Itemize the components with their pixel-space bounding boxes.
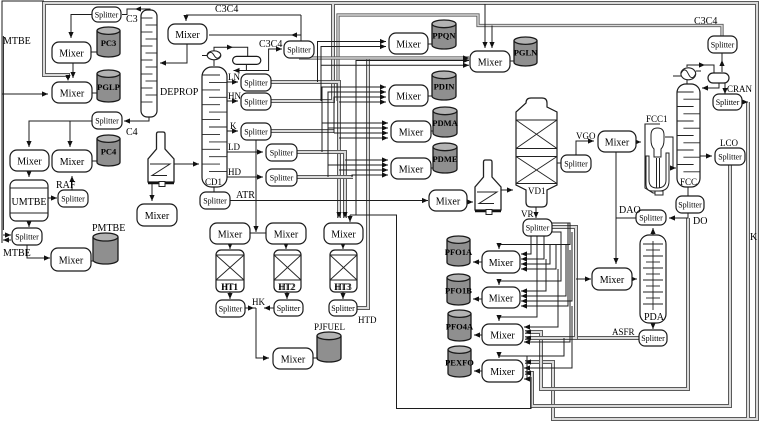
wire FCC condenser stub right xyxy=(696,70,701,72)
splitter S2 xyxy=(92,112,122,129)
wire mixer M12 feed 4 xyxy=(352,172,388,177)
drum PEXFO xyxy=(445,346,474,377)
wire reactor HT3 to splitter S16 xyxy=(340,292,345,299)
wire splitter S2 to mixer M3 xyxy=(26,121,92,147)
svg-text:Mixer: Mixer xyxy=(59,255,84,266)
splitter S12 xyxy=(639,330,667,346)
wire FCC column top to condenser xyxy=(686,80,688,84)
wire mixer M9 top feed 2 xyxy=(489,26,494,49)
svg-text:Splitter: Splitter xyxy=(287,46,311,55)
wire mixer M21 to drum PFO1B xyxy=(473,296,482,301)
mixer M21 xyxy=(482,287,520,308)
svg-text:Splitter: Splitter xyxy=(244,79,268,88)
mixer M4 xyxy=(52,150,92,172)
wire FCC condenser stub left xyxy=(673,75,681,77)
svg-text:PC4: PC4 xyxy=(101,147,117,157)
svg-text:HK: HK xyxy=(252,297,265,307)
wire mixer M10 feed 4 xyxy=(339,99,386,104)
wire FCC LCO draw to splitter S9 xyxy=(700,153,712,158)
wire mixer M13 to furnace F2 xyxy=(467,199,473,204)
splitter S8 xyxy=(713,94,742,110)
wire UMTBE to splitter S3 xyxy=(26,221,31,227)
column VD1 vacuum tower xyxy=(516,98,557,207)
wire left frame second line xyxy=(2,36,4,230)
svg-text:LN: LN xyxy=(228,72,240,82)
wire CD1 K draw xyxy=(227,128,238,133)
svg-text:C3C4: C3C4 xyxy=(694,16,717,27)
bus LCO line xyxy=(525,165,730,406)
reactor HT3 xyxy=(330,250,357,292)
svg-text:PDA: PDA xyxy=(644,312,665,323)
splitter S6 xyxy=(561,155,591,172)
bus LN splitter out xyxy=(271,82,342,218)
svg-text:HT1: HT1 xyxy=(221,282,238,292)
svg-text:PC3: PC3 xyxy=(101,38,117,48)
wire PFO1B top feed xyxy=(496,232,561,285)
mixer M9 xyxy=(470,51,510,72)
svg-text:C3: C3 xyxy=(126,14,138,25)
wire CD1 HD draw xyxy=(227,174,263,179)
svg-text:Mixer: Mixer xyxy=(59,48,84,59)
wire HT1 HT2 mixer junction xyxy=(250,232,266,234)
drum PC3 xyxy=(97,27,120,57)
wire C3C4 splitter S4 riser xyxy=(300,15,302,41)
wire PFO4A feed 1 xyxy=(524,269,558,330)
wire mixer M23 to drum PEXFO xyxy=(474,368,482,373)
svg-text:PDIN: PDIN xyxy=(434,82,456,92)
reflux drum D1 xyxy=(233,56,261,64)
wire mixer M9 top feed 1 xyxy=(482,4,487,48)
wire drum D2 up to splitter S7 xyxy=(719,53,724,72)
wire DAO line down to mixer M15 xyxy=(613,218,636,264)
wire mixer M15 to PDA column xyxy=(631,276,637,281)
svg-text:Mixer: Mixer xyxy=(399,127,424,138)
splitter S1 xyxy=(92,7,121,22)
wire PFO4A feed 4 xyxy=(524,250,570,345)
svg-text:Splitter: Splitter xyxy=(277,304,301,313)
reactor HT2 xyxy=(274,250,301,292)
mixer M10 xyxy=(389,85,428,106)
wire DEPROP bottoms C4 to splitter S2 xyxy=(124,117,149,124)
svg-text:Mixer: Mixer xyxy=(218,229,243,240)
wire mixer M12 feed 2 xyxy=(328,162,388,167)
svg-text:FCC: FCC xyxy=(680,177,697,187)
wire PEXFO top feed xyxy=(496,338,564,358)
bus K splitter out xyxy=(271,129,334,133)
mixer M2 xyxy=(52,82,92,103)
svg-text:Mixer: Mixer xyxy=(605,137,630,148)
svg-text:Mixer: Mixer xyxy=(145,211,170,222)
condenser E2 (FCC overhead) xyxy=(681,68,696,80)
svg-text:Splitter: Splitter xyxy=(15,233,39,242)
column DEPROP xyxy=(141,10,157,117)
wire mixer M14 to DAO junction xyxy=(615,152,617,218)
wire HK to mixer M19 xyxy=(256,308,269,361)
svg-text:PFO4A: PFO4A xyxy=(446,322,474,332)
svg-text:VR: VR xyxy=(521,209,534,219)
wire PEXFO feed 2 xyxy=(524,306,572,371)
svg-text:HT3: HT3 xyxy=(334,282,351,292)
wire CD1 LN draw xyxy=(227,79,238,84)
wire PDA bottoms to splitter S12 xyxy=(650,323,655,329)
svg-text:Mixer: Mixer xyxy=(478,57,503,68)
splitter SK xyxy=(241,123,271,140)
mixer M6 xyxy=(168,24,207,44)
svg-text:PFO1B: PFO1B xyxy=(445,286,472,296)
wire PFO1A feed 3 xyxy=(521,245,550,267)
splitter S7 xyxy=(708,36,737,53)
svg-text:C3C4: C3C4 xyxy=(215,4,238,15)
wire splitter S8 out right xyxy=(742,99,748,104)
wire mixer M20 to drum PFO1A xyxy=(473,259,482,264)
svg-text:Mixer: Mixer xyxy=(396,39,421,50)
wire mixer M11 feed 2 xyxy=(328,125,388,130)
splitter SRAF xyxy=(58,190,88,207)
wire splitter S6 to mixer M14 VGO xyxy=(576,138,594,155)
wire mixer M8 feed 2 xyxy=(321,44,386,101)
svg-text:Mixer: Mixer xyxy=(490,330,515,341)
column FCC main fractionator xyxy=(677,84,700,187)
svg-text:Mixer: Mixer xyxy=(17,156,42,167)
vessel UMTBE xyxy=(10,180,48,221)
wire mixer M11 feed 3 xyxy=(334,130,388,135)
splitter SHN xyxy=(241,93,271,110)
wire splitter S10 to splitter S11 xyxy=(669,213,688,221)
wire furnace F1 to CD1 feed xyxy=(174,161,199,166)
wire mixer M11 feed 1 xyxy=(322,120,388,125)
svg-text:HTD: HTD xyxy=(358,315,377,325)
wire mixer M12 feed 1 xyxy=(345,157,388,162)
splitter SLD xyxy=(266,144,297,161)
svg-text:HT2: HT2 xyxy=(278,282,295,292)
svg-text:Mixer: Mixer xyxy=(60,157,85,168)
wire reactor HT2 to splitter S15 xyxy=(284,292,289,299)
drum PDME xyxy=(432,143,457,173)
svg-text:Mixer: Mixer xyxy=(396,91,421,102)
wire C3C4 top line xyxy=(186,14,301,16)
wire PFO1B feed 3 xyxy=(521,232,572,304)
mixer M14 xyxy=(598,131,636,152)
wire splitter S3 left in xyxy=(3,232,11,237)
svg-text:UMTBE: UMTBE xyxy=(12,197,47,208)
svg-text:Splitter: Splitter xyxy=(270,149,294,158)
wire VD1 bottoms VR to splitter S13 xyxy=(533,207,538,218)
wire mixer M9 left feed 1b xyxy=(356,58,469,215)
condenser E1 (CD1 overhead) xyxy=(207,51,221,60)
svg-text:VGO: VGO xyxy=(576,131,596,141)
mixer M15 xyxy=(592,268,632,290)
svg-text:CD1: CD1 xyxy=(205,177,222,187)
wire mixer M16 to reactor HT1 xyxy=(227,243,232,249)
wire RAF splitter to mixer M4 xyxy=(69,176,74,190)
svg-text:Mixer: Mixer xyxy=(331,229,356,240)
wire mixer M22 to drum PFO4A xyxy=(474,332,482,337)
svg-text:ASFR: ASFR xyxy=(612,327,635,337)
splitter S16 xyxy=(329,300,357,316)
drum PPQN xyxy=(432,20,456,49)
furnace F2 xyxy=(475,160,501,215)
wire left frame MTBE xyxy=(2,1,44,243)
wire PFO1A feed 4 xyxy=(521,245,556,272)
svg-text:Splitter: Splitter xyxy=(331,304,355,313)
svg-text:Splitter: Splitter xyxy=(270,174,294,183)
mixer M7 xyxy=(137,204,177,226)
wire top line to mixer M6 xyxy=(183,15,188,21)
wire FCC1 to FCC column xyxy=(665,137,676,171)
mixer M22 xyxy=(482,324,523,345)
wire condenser E1 stub xyxy=(202,55,208,57)
svg-text:Splitter: Splitter xyxy=(244,128,268,137)
wire ATR line to mixer M13 xyxy=(230,198,428,203)
wire splitter S3 to mixer M5 xyxy=(27,245,50,261)
bus DO line xyxy=(525,218,688,389)
svg-text:C4: C4 xyxy=(126,127,138,138)
svg-text:MTBE: MTBE xyxy=(3,36,31,47)
wire mid collector line xyxy=(350,215,531,409)
mixer M11 xyxy=(391,121,431,142)
svg-text:Mixer: Mixer xyxy=(281,354,306,365)
mixer M20 xyxy=(482,251,520,273)
wire UMTBE to RAF splitter xyxy=(48,195,57,200)
svg-text:Splitter: Splitter xyxy=(526,224,550,233)
svg-text:PPQN: PPQN xyxy=(432,31,456,41)
mixer M23 xyxy=(482,360,523,382)
svg-text:K: K xyxy=(750,232,758,243)
furnace F1 xyxy=(148,132,174,187)
wire PDA top to splitter S11 xyxy=(650,228,655,235)
svg-text:DAO: DAO xyxy=(619,205,641,216)
mixer M16 xyxy=(210,223,250,244)
svg-text:Splitter: Splitter xyxy=(61,195,85,204)
mixer M5 xyxy=(51,248,91,271)
svg-text:C3C4: C3C4 xyxy=(259,39,282,50)
wire FCC condenser to drum D2 xyxy=(687,62,714,72)
wire mixer M10 feed 1 xyxy=(322,84,386,152)
reactor FCC1 riser-regenerator xyxy=(645,124,669,195)
wire splitter S14 HK out xyxy=(245,305,256,310)
svg-text:PDME: PDME xyxy=(432,154,457,164)
wire CD1 LD draw xyxy=(227,149,263,154)
svg-text:Splitter: Splitter xyxy=(641,334,665,343)
svg-text:HN: HN xyxy=(228,91,241,101)
wire splitter S2 to mixer M4 xyxy=(67,121,72,147)
drum PDMA xyxy=(432,107,458,137)
svg-text:K: K xyxy=(230,121,237,131)
wire PFO1B feed 4 xyxy=(521,223,568,309)
wire PEXFO feed 4 xyxy=(524,356,530,382)
column PDA xyxy=(640,235,666,323)
svg-text:Mixer: Mixer xyxy=(274,229,299,240)
drum PDIN xyxy=(432,71,456,100)
splitter S11 xyxy=(636,210,666,225)
wire mixer M10 feed 2 xyxy=(328,89,386,177)
svg-text:ATR: ATR xyxy=(236,190,255,201)
wire mixer M3 to UMTBE xyxy=(26,171,31,177)
svg-text:Mixer: Mixer xyxy=(600,275,625,286)
wire PFO1B feed 1 xyxy=(521,259,546,294)
drum PFO4A xyxy=(446,310,474,341)
svg-text:Splitter: Splitter xyxy=(95,117,119,126)
svg-text:Mixer: Mixer xyxy=(490,367,515,378)
svg-text:HD: HD xyxy=(228,167,241,177)
svg-text:Splitter: Splitter xyxy=(718,153,742,162)
wire mixer M11 feed 4 xyxy=(339,135,388,140)
drum PFO1B xyxy=(445,274,472,305)
bus ASFR line xyxy=(525,335,639,340)
wire splitter SK down to HT junction xyxy=(253,140,258,232)
wire furnace F1 to mixer M7 xyxy=(149,176,154,201)
mixer M18 xyxy=(324,223,363,244)
wire FCC bottoms to splitter S10 xyxy=(687,187,689,196)
svg-text:Splitter: Splitter xyxy=(678,201,702,210)
wire PFO1A top feed xyxy=(496,223,570,249)
wire mixer M17 to reactor HT2 xyxy=(283,243,288,249)
wire mixer M9 left feed 2 xyxy=(321,63,469,68)
splitter S10 xyxy=(676,196,704,213)
svg-text:Splitter: Splitter xyxy=(564,160,588,169)
wire VR bus tap to mixer M15 xyxy=(576,276,591,281)
wire arrowhead bus into mixer M2 xyxy=(65,75,70,81)
wire mixer M18 to reactor HT3 xyxy=(340,243,345,249)
wire drum D2 reflux to FCC xyxy=(702,83,719,91)
wire PFO1B feed 2 xyxy=(521,245,566,299)
splitter S15 xyxy=(274,300,303,316)
svg-text:RAF: RAF xyxy=(56,180,76,191)
splitter S4 xyxy=(284,41,314,58)
svg-text:Splitter: Splitter xyxy=(219,305,243,314)
svg-text:LD: LD xyxy=(228,142,240,152)
drum PGLP xyxy=(97,70,120,102)
svg-text:PFO1A: PFO1A xyxy=(445,247,473,257)
svg-text:PEXFO: PEXFO xyxy=(445,358,474,368)
wire reactor HT1 to splitter S14 xyxy=(227,292,232,299)
mixer M13 xyxy=(429,190,467,211)
drum PMTBE xyxy=(93,233,118,264)
wire PFO1A feed 1 xyxy=(521,236,531,257)
drum PC4 xyxy=(97,135,120,166)
mixer M12 xyxy=(391,158,431,179)
bus C3C4 upper header to splitter S7 xyxy=(338,15,722,101)
bus HD splitter out xyxy=(297,175,353,179)
wire mixer M14 to FCC1 xyxy=(635,139,641,144)
drum PGLN xyxy=(514,37,538,66)
svg-text:CRAN: CRAN xyxy=(727,84,753,94)
splitter S13 xyxy=(523,219,552,236)
wire drum D1 reflux to CD1 xyxy=(234,64,247,73)
svg-text:Mixer: Mixer xyxy=(436,196,461,207)
wire CD1 HN draw xyxy=(227,98,238,103)
wire drum D2 CRAN down xyxy=(722,83,727,94)
svg-text:PDMA: PDMA xyxy=(432,118,458,128)
bus PGLN feed header xyxy=(299,55,469,60)
svg-text:Mixer: Mixer xyxy=(399,164,424,175)
column CD1 xyxy=(202,67,227,187)
drum PFO1A xyxy=(445,236,473,266)
svg-text:Splitter: Splitter xyxy=(203,197,227,206)
wire furnace F2 to VD1 feed xyxy=(501,187,513,192)
mixer M8 xyxy=(389,33,428,54)
svg-text:Splitter: Splitter xyxy=(95,11,119,20)
wire HT3 mixer feed 3 xyxy=(347,215,352,222)
bus VR splitter out xyxy=(552,227,576,338)
svg-text:PGLP: PGLP xyxy=(97,82,120,92)
splitter SHD xyxy=(266,169,297,186)
wire mixer M8 feed 1 xyxy=(318,39,387,82)
svg-text:Mixer: Mixer xyxy=(489,293,514,304)
wire mixer M1 to mixer M2 xyxy=(70,63,75,78)
wire VD1 VGO to splitter S6 xyxy=(557,162,561,164)
splitter SATR xyxy=(200,192,230,209)
wire splitter S15 HK out xyxy=(264,305,274,310)
wire splitter S1 to mixer M1 xyxy=(68,15,92,39)
svg-text:MTBE: MTBE xyxy=(3,248,31,259)
svg-text:Mixer: Mixer xyxy=(489,258,514,269)
svg-text:PJFUEL: PJFUEL xyxy=(314,322,345,332)
svg-text:Mixer: Mixer xyxy=(175,30,200,41)
svg-text:VD1: VD1 xyxy=(528,186,546,196)
svg-text:DEPROP: DEPROP xyxy=(160,87,199,98)
splitter S9 xyxy=(715,148,745,165)
wire drum connectors xyxy=(91,44,514,358)
wire PFO4A top feed xyxy=(496,236,537,321)
wire CD1 bottoms to splitter SATR xyxy=(213,187,215,192)
bus CRAN K line xyxy=(746,102,750,418)
splitter S14 xyxy=(216,300,245,317)
wire mixer M12 feed 3 xyxy=(339,167,388,172)
svg-text:PMTBE: PMTBE xyxy=(92,223,125,234)
wire CD1 overhead riser xyxy=(214,45,248,66)
mixer M17 xyxy=(266,223,306,244)
reactor HT1 xyxy=(216,250,244,292)
bus LD splitter out xyxy=(297,152,348,218)
drum PJFUEL xyxy=(317,332,341,362)
reflux drum D2 xyxy=(708,73,729,83)
bus HN to top header xyxy=(271,4,333,101)
wire PFO1A feed 2 xyxy=(521,236,544,262)
mixer M3 xyxy=(10,150,49,171)
svg-text:Splitter: Splitter xyxy=(716,98,740,107)
wire splitter S3 left out xyxy=(3,237,11,242)
mixer M19 xyxy=(273,348,313,369)
wire mixer M10 feed 3 xyxy=(334,94,386,133)
wire MTBE feed to mixer M2 xyxy=(2,91,48,96)
wire S4 branch to mixer M6 xyxy=(209,32,301,37)
svg-text:FCC1: FCC1 xyxy=(646,114,668,124)
svg-text:DO: DO xyxy=(693,216,707,227)
svg-text:PGLN: PGLN xyxy=(514,48,538,58)
mixer M1 xyxy=(52,42,91,63)
svg-text:Splitter: Splitter xyxy=(244,98,268,107)
splitter SLN xyxy=(241,74,271,91)
wire mixer M6 to DEPROP xyxy=(160,44,187,66)
wire DEPROP overhead C3 to splitter S1 xyxy=(122,6,150,14)
bus HTD riser xyxy=(357,58,368,308)
wire drum D1 C3C4 to splitter S4 xyxy=(246,46,282,70)
svg-text:LCO: LCO xyxy=(720,138,739,148)
svg-text:Splitter: Splitter xyxy=(639,214,663,223)
splitter S3 xyxy=(12,228,42,245)
svg-text:Mixer: Mixer xyxy=(60,88,85,99)
svg-text:Splitter: Splitter xyxy=(711,41,735,50)
